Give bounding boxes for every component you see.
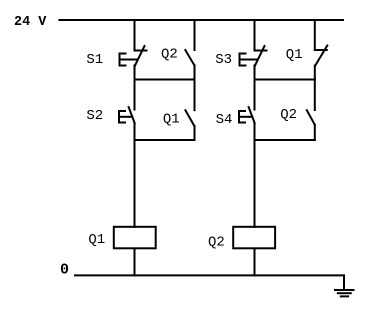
wire: S3 to node C [254, 66, 256, 81]
node C junction wire (right branch) [255, 79, 315, 81]
contact Q1 (normally-open, parallel with S2) [185, 110, 194, 126]
wire: coil Q2 to 0 rail [254, 249, 256, 276]
node A junction wire (left branch) [135, 79, 195, 81]
coil Q2 (relay coil) [233, 227, 275, 249]
power rail 24 V (top bus wire) [59, 19, 343, 21]
wire: 0 rail to ground [343, 275, 345, 290]
power rail 0 (bottom bus wire) [75, 274, 344, 276]
wire: S4 to node D [254, 123, 256, 140]
svg-text:Q1: Q1 [163, 111, 180, 127]
wire: 24V rail down to contact Q1 [314, 20, 316, 50]
wire: node A down to contact Q1 [194, 80, 196, 111]
svg-text:24 V: 24 V [14, 15, 47, 30]
svg-text:S4: S4 [216, 112, 233, 128]
wire: node C down to S4 [254, 80, 256, 110]
contact Q1 (normally-closed, parallel with S3) [315, 46, 328, 66]
svg-text:Q2: Q2 [280, 107, 297, 123]
pushbutton S3 (normally-closed contact) [240, 46, 267, 66]
wire: contact Q1 to node C [314, 66, 316, 81]
svg-text:Q1: Q1 [286, 47, 303, 63]
contact Q2 (normally-open, parallel with S4) [307, 110, 315, 125]
wire: contact Q1 to node B [194, 126, 196, 140]
node D junction wire (right branch) [255, 139, 315, 141]
wire: node C down to contact Q2 [314, 80, 316, 111]
pushbutton S1 (normally-closed contact) [120, 46, 147, 66]
wire: contact Q2 to node A [194, 66, 196, 81]
wire: 24V rail down to S3 [254, 20, 256, 51]
wire: 24V rail down to contact Q2 [194, 20, 196, 50]
wire: S2 to node B [134, 123, 136, 140]
pushbutton S4 (normally-open contact) [239, 107, 255, 123]
wire: S1 to node A [134, 66, 136, 81]
svg-text:S2: S2 [86, 108, 103, 124]
svg-text:Q1: Q1 [88, 232, 105, 248]
wire: node D down to coil Q2 [254, 140, 256, 227]
svg-text:S1: S1 [86, 52, 103, 68]
wire: node B down to coil Q1 [134, 140, 136, 227]
svg-text:S3: S3 [215, 52, 232, 68]
wire: coil Q1 to 0 rail [134, 249, 136, 276]
wire: contact Q2 to node D [314, 125, 316, 140]
node B junction wire (left branch) [135, 139, 195, 141]
contact Q2 (normally-open, parallel with S1) [185, 50, 194, 66]
wire: node A down to S2 [134, 80, 136, 110]
svg-text:0: 0 [60, 261, 69, 278]
pushbutton S2 (normally-open contact) [119, 107, 135, 123]
svg-text:Q2: Q2 [208, 235, 225, 251]
coil Q1 (relay coil) [114, 227, 156, 249]
svg-text:Q2: Q2 [161, 47, 178, 63]
ground (earth symbol) [335, 290, 354, 296]
wire: 24V rail down to S1 [134, 20, 136, 51]
